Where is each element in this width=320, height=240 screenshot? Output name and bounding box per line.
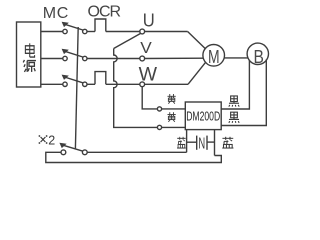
- svg-text:U: U: [143, 10, 155, 31]
- svg-text:B: B: [254, 47, 264, 67]
- svg-text:V: V: [140, 40, 152, 57]
- svg-text:M: M: [208, 47, 220, 67]
- svg-text:N: N: [198, 136, 205, 153]
- svg-text:MC: MC: [43, 5, 69, 22]
- svg-text:DM200D: DM200D: [186, 109, 220, 124]
- svg-text:W: W: [139, 65, 157, 86]
- svg-text:2: 2: [48, 133, 55, 147]
- svg-text:OCR: OCR: [88, 4, 121, 21]
